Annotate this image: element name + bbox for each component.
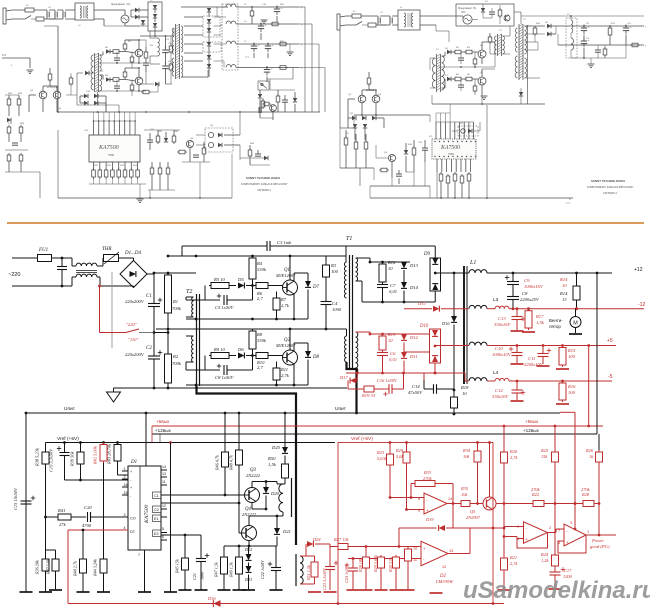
svg-text:R22: R22 — [531, 492, 540, 497]
svg-text:THR: THR — [102, 247, 111, 252]
wire Vref line — [46, 442, 336, 444]
svg-text:R8: R8 — [256, 332, 263, 337]
svg-text:Венти-: Венти- — [549, 318, 563, 323]
diode D22 — [248, 554, 250, 556]
wire U2C feedback — [517, 533, 548, 549]
capacitor C4 — [325, 279, 327, 301]
resistor R50 — [282, 462, 289, 480]
scan1 cap HV1 — [162, 49, 168, 51]
resistor R22 — [531, 501, 546, 507]
capacitor C15 — [21, 501, 32, 504]
scan2 transformer main — [518, 24, 520, 80]
capacitor C10 — [516, 346, 518, 353]
svg-text:L4: L4 — [493, 370, 499, 376]
svg-text:C13: C13 — [498, 316, 506, 321]
svg-text:+: + — [423, 546, 426, 551]
resistor R7 — [276, 292, 278, 297]
svg-text:D9: D9 — [423, 252, 430, 257]
diode D12 — [401, 334, 407, 340]
svg-text:Q5: Q5 — [470, 509, 476, 514]
svg-text:R21: R21 — [509, 555, 517, 560]
wire Q5 emitter up — [489, 443, 491, 498]
svg-text:16: 16 — [124, 483, 128, 487]
svg-text:uSamodelkina.ru: uSamodelkina.ru — [463, 577, 650, 604]
wire mid node — [503, 504, 505, 529]
wire thick drive line — [197, 386, 297, 545]
wire feedback column — [170, 443, 172, 593]
scan1 opto pair box — [205, 128, 233, 152]
resistor R4 — [249, 256, 256, 281]
svg-text:R1: R1 — [172, 299, 178, 304]
svg-text:270k: 270k — [581, 487, 591, 492]
wire PG output — [586, 534, 616, 536]
capacitor C1 — [153, 273, 155, 303]
svg-text:D6: D6 — [237, 347, 244, 352]
transistor Q5 — [483, 497, 496, 510]
scan1 sec taps — [181, 6, 228, 8]
wire -12 rail — [487, 308, 495, 310]
diode D17 — [356, 378, 358, 381]
svg-text:270k: 270k — [531, 487, 541, 492]
svg-text:"110": "110" — [128, 337, 138, 342]
wire -5 rail — [487, 380, 495, 382]
diode D15 — [404, 308, 432, 310]
resistor R32 feedback — [413, 481, 437, 487]
diode D8 — [294, 342, 308, 344]
capacitor C16 — [389, 384, 392, 394]
wire +5 rail — [487, 345, 616, 347]
svg-text:10: 10 — [462, 391, 467, 396]
diode D13 — [401, 262, 407, 268]
svg-text:Vref (+5V): Vref (+5V) — [351, 436, 373, 442]
svg-text:1000: 1000 — [200, 571, 205, 580]
wire U2C inputs — [504, 526, 524, 528]
svg-text:C4: C4 — [332, 301, 338, 306]
svg-text:10: 10 — [413, 547, 417, 551]
svg-text:C11: C11 — [528, 356, 535, 361]
svg-text:2200x25V: 2200x25V — [520, 297, 540, 302]
scan1 rail1 — [236, 6, 299, 8]
wire Q5 collector — [496, 503, 504, 505]
capacitor C19 — [64, 443, 66, 453]
svg-text:C1: C1 — [146, 294, 152, 299]
capacitor C23 — [325, 567, 335, 570]
wire Q4 collector — [248, 541, 250, 546]
scan1 transformer main — [175, 24, 177, 79]
svg-text:BR: BR — [150, 0, 153, 2]
svg-text:11: 11 — [162, 480, 166, 484]
wire DC positive rail — [147, 273, 154, 275]
scan2 bottom buses — [370, 185, 430, 187]
svg-text:Предохранит. Пр: Предохранит. Пр — [458, 8, 477, 10]
svg-text:D11: D11 — [409, 354, 418, 359]
scan1 choke col — [222, 4, 238, 70]
svg-text:100: 100 — [568, 354, 576, 359]
wire Q3 base line — [161, 494, 245, 496]
svg-text:C9: C9 — [524, 278, 530, 283]
resistor R36 — [45, 517, 47, 557]
resistor R28r — [581, 501, 596, 507]
wire bottom red line — [68, 603, 504, 605]
resistor R39 — [80, 443, 82, 451]
resistor R13 — [379, 334, 386, 352]
svg-text:C8 1x50V: C8 1x50V — [215, 375, 234, 380]
resistor R10 — [254, 353, 270, 359]
scan1 rect diode col — [207, 8, 211, 12]
wire U2A inputs — [390, 497, 424, 499]
svg-text:Предохранит. | Пр: Предохранит. | Пр — [111, 4, 131, 6]
diode D25 — [284, 413, 286, 447]
svg-text:R41: R41 — [57, 508, 65, 513]
bridge rectifier D1...D4 — [120, 261, 147, 288]
ground main — [113, 388, 115, 392]
scan2 fuse — [352, 14, 361, 18]
resistor R43 — [114, 443, 121, 464]
svg-text:R17: R17 — [535, 314, 544, 319]
scan1 IC KA7500 box — [89, 135, 140, 162]
diode D16b — [451, 316, 457, 322]
svg-text:R50: R50 — [267, 456, 276, 461]
scan1 ground mid — [287, 51, 294, 53]
resistor R46 — [222, 450, 229, 469]
svg-text:C24 1x50V: C24 1x50V — [344, 564, 349, 583]
svg-text:D7: D7 — [312, 285, 319, 290]
resistor R29c — [406, 443, 408, 451]
diode D7 — [294, 272, 308, 274]
scan1 driver transformer — [94, 53, 96, 92]
wire +5out line — [152, 425, 603, 427]
wire secondary mid tap — [356, 280, 363, 282]
svg-text:C10: C10 — [495, 346, 503, 351]
svg-text:D25: D25 — [271, 445, 281, 450]
wire U2D feedback — [558, 535, 586, 553]
diode pack D10 — [430, 329, 441, 363]
svg-text:1000x10V: 1000x10V — [492, 352, 512, 357]
svg-text:R28: R28 — [581, 492, 590, 497]
svg-text:R36 20k: R36 20k — [35, 560, 40, 575]
svg-text:E2: E2 — [154, 532, 159, 536]
capacitor C14 — [423, 373, 425, 380]
resistor R15 — [559, 346, 566, 368]
wire R18 column top — [453, 273, 455, 316]
resistor R6 — [254, 283, 270, 289]
diode D24 — [305, 544, 307, 556]
diode D11 — [401, 352, 407, 358]
svg-text:10k: 10k — [461, 492, 468, 497]
resistor R34 — [477, 443, 479, 450]
scan1 rail3 — [236, 43, 299, 45]
svg-text:13: 13 — [449, 549, 453, 553]
wire out line stubs — [151, 426, 153, 443]
scan1 snubber mid — [144, 52, 148, 58]
wire emitter bus upper — [186, 318, 277, 320]
svg-text:C20: C20 — [84, 505, 92, 510]
switch 220/110 — [99, 286, 101, 333]
svg-text:D12: D12 — [409, 335, 419, 340]
resistor R47 — [223, 546, 225, 555]
capacitor C22 — [275, 546, 277, 567]
diode D21 — [276, 516, 278, 528]
resistor R28b — [365, 547, 367, 556]
inductor common-mode choke — [62, 257, 72, 259]
svg-text:1000x16V: 1000x16V — [524, 284, 544, 289]
scan1 diode cluster — [135, 8, 139, 12]
scan1 right drop — [292, 68, 294, 80]
svg-text:⊥: ⊥ — [10, 63, 13, 67]
capacitor C5 — [205, 299, 220, 301]
IC D1 left pins — [122, 470, 128, 472]
svg-text:47x50V: 47x50V — [408, 390, 423, 395]
resistor R37 — [46, 549, 56, 551]
scan2 resistor row — [439, 174, 443, 181]
svg-text:F-5: F-5 — [2, 54, 6, 57]
svg-text:›: › — [301, 23, 302, 27]
scan1 IC pins top — [93, 121, 95, 135]
svg-text:C2: C2 — [146, 346, 152, 351]
wire red secondary bottom — [382, 366, 384, 373]
wire +5 sense to U2D — [560, 411, 575, 413]
svg-text:2N2907: 2N2907 — [466, 515, 481, 520]
wire DT line — [68, 529, 128, 531]
svg-text:C16 1x50V: C16 1x50V — [377, 378, 398, 383]
capacitor C13 — [516, 309, 518, 316]
svg-text:R14: R14 — [559, 277, 568, 282]
resistor R1 — [165, 273, 172, 315]
scan1 cap HV2 — [162, 65, 168, 67]
svg-text:R4: R4 — [256, 261, 263, 266]
svg-text:Power: Power — [591, 538, 604, 543]
scan1 choke box — [75, 3, 94, 20]
svg-text:C17: C17 — [564, 568, 572, 573]
svg-text:100: 100 — [331, 269, 339, 274]
svg-text:лятор: лятор — [549, 324, 561, 329]
svg-text:R5 10: R5 10 — [213, 277, 226, 282]
svg-text:+12: +12 — [634, 267, 643, 273]
svg-text:T2: T2 — [186, 289, 192, 295]
scan1 mains rails — [16, 9, 25, 11]
wire +12 rail — [487, 272, 612, 274]
svg-text:10: 10 — [562, 283, 567, 288]
svg-text:CO: CO — [130, 517, 136, 521]
wire AC input lines — [12, 257, 38, 259]
transistor Q1 — [283, 280, 298, 295]
svg-text:+: + — [426, 508, 429, 513]
scan1 AC plug — [3, 8, 6, 24]
snubber R3 — [325, 256, 327, 263]
scan2 driver mid bus — [439, 66, 496, 68]
svg-text:›: › — [301, 6, 302, 10]
svg-text:R7: R7 — [280, 297, 287, 302]
scan1 opto block — [258, 81, 269, 90]
capacitor C21 — [161, 516, 167, 518]
svg-text:27k: 27k — [59, 522, 67, 527]
scan2 below IC parts — [422, 147, 428, 149]
wire +5 sense drop — [588, 346, 590, 427]
wire T1 primary top — [345, 246, 347, 262]
scan2 choke box — [398, 10, 420, 30]
scan2 sec small parts — [595, 49, 601, 51]
svg-text:KOMPUTEROWY ZASILACZ IMPULSOWY: KOMPUTEROWY ZASILACZ IMPULSOWY — [587, 186, 634, 189]
wire U2C out to U2D — [548, 532, 557, 534]
svg-text:R16: R16 — [567, 384, 576, 389]
svg-text:C3 1mk: C3 1mk — [277, 240, 292, 245]
capacitor C3 — [267, 241, 270, 251]
scan2 IC pins top — [435, 122, 437, 139]
op-amp U2A — [424, 493, 447, 514]
svg-text:T1: T1 — [346, 236, 352, 242]
wire IC ground pin 7 — [144, 550, 146, 592]
scan2 AC plug — [337, 14, 340, 30]
scan1 driver bot — [100, 74, 104, 76]
scan2 IC KA7500 box — [432, 139, 476, 159]
scan2 IC pins bottom — [436, 159, 438, 172]
transistor Q2 — [283, 350, 298, 365]
scan2 bottom bus mid — [432, 103, 528, 105]
transformer T3 secondary — [295, 554, 297, 586]
ground C13 — [511, 330, 524, 332]
svg-text:R27 13k: R27 13k — [333, 537, 350, 542]
svg-text:R45 15k: R45 15k — [175, 559, 180, 574]
scan1 bottom area parts — [248, 150, 252, 156]
svg-text:›: › — [301, 67, 302, 71]
svg-text:R39 56k: R39 56k — [70, 450, 75, 467]
diode D16 — [213, 600, 220, 607]
scan2 protection parts — [481, 8, 485, 12]
resistor R11 — [276, 362, 278, 367]
svg-text:Uпит: Uпит — [64, 406, 76, 412]
scan2 driver top — [442, 55, 446, 57]
svg-text:270k: 270k — [423, 476, 433, 481]
svg-text:R18: R18 — [460, 385, 469, 390]
svg-text:+5вых: +5вых — [156, 419, 170, 424]
svg-text:›: › — [301, 43, 302, 47]
scan2 rail1 — [558, 25, 644, 27]
wire AC to bridge bottom — [100, 285, 134, 287]
svg-text:D16: D16 — [441, 321, 450, 326]
resistor R25 — [554, 426, 556, 450]
op-amp U2C — [524, 522, 548, 544]
svg-text:/ / /: / / / — [245, 55, 249, 59]
diode pack D9 — [430, 258, 441, 291]
svg-text:10: 10 — [388, 266, 393, 271]
wire +12out line — [152, 433, 597, 435]
svg-text:7500: 7500 — [448, 152, 454, 156]
scan1 fuse — [25, 8, 34, 12]
resistor R35 — [447, 503, 459, 505]
svg-text:10: 10 — [388, 338, 393, 343]
capacitor C7 — [382, 283, 384, 285]
svg-text:C22 1x50V: C22 1x50V — [260, 560, 265, 579]
svg-text:330k: 330k — [257, 267, 267, 272]
svg-text:+12вых: +12вых — [155, 428, 172, 433]
svg-text:~220: ~220 — [8, 272, 20, 278]
scan1 driver top — [100, 54, 104, 56]
wire Q4 base line — [161, 502, 239, 504]
svg-text:C6: C6 — [390, 351, 396, 356]
svg-text:7: 7 — [138, 553, 140, 557]
svg-text:2: 2 — [124, 475, 126, 479]
scan1 left transistor pair — [39, 91, 47, 99]
svg-text:13: 13 — [562, 297, 567, 302]
wire Q4 emitter split — [248, 545, 251, 547]
diode D23 — [246, 566, 252, 572]
scan2 driver bot — [442, 87, 446, 89]
svg-text:700k: 700k — [172, 306, 182, 311]
svg-text:R3: R3 — [330, 263, 337, 268]
wire IC supply — [145, 413, 147, 466]
wire T2 primary feed — [196, 386, 198, 388]
capacitor C2 — [148, 356, 160, 359]
svg-text:D17: D17 — [339, 375, 348, 380]
resistor R29b — [380, 555, 382, 559]
svg-text:CWT9200-1: CWT9200-1 — [257, 188, 272, 192]
svg-text:/ / /: / / / — [566, 201, 570, 205]
svg-text:R29: R29 — [395, 448, 404, 453]
scan2 mid left bus — [339, 30, 341, 128]
svg-text:R15: R15 — [567, 348, 576, 353]
svg-text:R12: R12 — [387, 260, 396, 265]
scan2 NTC circle — [463, 15, 472, 24]
resistor R2 — [165, 352, 172, 385]
svg-text:SUNNY TECHNOLOGIES: SUNNY TECHNOLOGIES — [591, 179, 625, 183]
svg-text:D20: D20 — [270, 491, 280, 496]
svg-text:C8: C8 — [522, 291, 528, 296]
svg-text:D1: D1 — [130, 460, 137, 465]
scan1 left diodes — [84, 94, 88, 98]
capacitor C8 — [205, 369, 220, 371]
svg-text:CWT9200-1: CWT9200-1 — [603, 191, 618, 195]
scan2 left hv bus — [397, 16, 399, 45]
scan1 sub resistor row — [150, 168, 154, 174]
diode D19 — [452, 504, 454, 529]
svg-text:330k: 330k — [257, 338, 267, 343]
capacitor C24 — [352, 559, 354, 568]
scan2 vertical bus right — [527, 26, 529, 104]
svg-text:R2: R2 — [172, 354, 179, 359]
fuse FU1 — [38, 255, 52, 262]
scan2 out resistor — [608, 28, 612, 35]
wire Q3 emitter to coil — [251, 503, 253, 510]
svg-text:-12: -12 — [638, 302, 645, 308]
svg-text:E1: E1 — [154, 517, 159, 521]
scan2 sec choke — [566, 18, 577, 58]
svg-text:KOMPUTEROWY ZASILACZ IMPULSOWY: KOMPUTEROWY ZASILACZ IMPULSOWY — [241, 183, 288, 186]
svg-text:R23: R23 — [376, 450, 385, 455]
svg-text:220x200V: 220x200V — [125, 352, 145, 357]
resistor R21 — [501, 556, 508, 572]
scan1 aux winding — [158, 38, 160, 56]
resistor R48 — [236, 448, 243, 467]
svg-text:12: 12 — [442, 565, 446, 569]
svg-text:KA7500: KA7500 — [144, 504, 150, 524]
scan2 left transistors — [358, 95, 366, 103]
resistor R49 — [238, 546, 240, 555]
wire upper rail — [168, 255, 196, 257]
svg-text:L3: L3 — [493, 297, 499, 303]
scan1 resistor row — [92, 170, 96, 177]
resistor R14 — [576, 273, 578, 284]
svg-text:D15: D15 — [417, 301, 426, 306]
svg-text:C5 1x50V: C5 1x50V — [215, 305, 234, 310]
svg-text:Uпит: Uпит — [335, 406, 347, 412]
resistor R20 — [501, 450, 508, 465]
capacitor C17 — [554, 568, 556, 572]
scan1 bleeder — [169, 46, 173, 52]
svg-text:R11: R11 — [280, 367, 288, 372]
scan2 sec caps — [581, 27, 587, 29]
scan2 cap X cluster — [377, 18, 379, 24]
svg-text:1000: 1000 — [332, 307, 342, 312]
